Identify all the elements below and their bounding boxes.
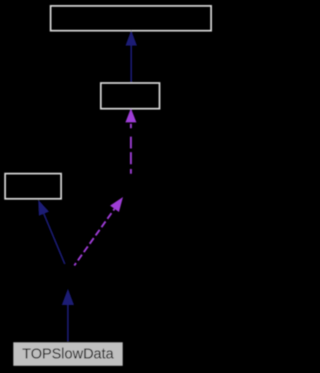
node: middle class box (101, 83, 160, 109)
edge: solid inheritance arrow (short vertical) from TOPSlowData (62, 289, 74, 342)
node TOPSlowData (current class, grey filled) (13, 342, 122, 366)
edge: dashed usage arrow (diagonal) up-right toward hidden node (74, 197, 123, 266)
edge: solid inheritance arrow (diagonal) into left box bottom (38, 200, 65, 264)
node: left class box (5, 174, 61, 199)
edge: dashed usage arrow (vertical) into middle box bottom (125, 108, 136, 174)
svg-text:TOPSlowData: TOPSlowData (22, 346, 115, 362)
node: top base-class box (51, 6, 212, 31)
edge: solid inheritance arrow from middle box to top box (126, 30, 137, 82)
